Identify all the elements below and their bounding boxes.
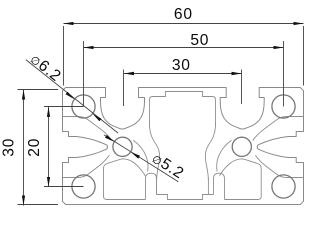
internal cavity bottom-left xyxy=(104,159,146,200)
svg-text:∅6.2: ∅6.2 xyxy=(27,51,64,86)
svg-text:30: 30 xyxy=(172,57,191,74)
internal cavity: central chamber right wall xyxy=(205,124,215,180)
leader d6.2 line xyxy=(26,60,118,133)
svg-text:50: 50 xyxy=(190,32,209,49)
web arm boss1 upper-right xyxy=(133,140,148,171)
internal cavity: central chamber ceiling xyxy=(150,92,216,127)
svg-text:20: 20 xyxy=(26,138,43,157)
web arm boss2 upper-left xyxy=(217,140,232,171)
corner block BR inner edge + web arm xyxy=(255,155,303,177)
aluminium profile outer outline with T-slots xyxy=(63,88,304,205)
corner hole 2 (d6.2) xyxy=(272,95,295,118)
svg-text:∅5.2: ∅5.2 xyxy=(149,150,187,183)
corner block BL inner edge + web arm xyxy=(63,155,110,177)
corner hole 1 (d6.2) xyxy=(72,95,95,118)
corner block TR inner edge + web arm xyxy=(253,117,304,141)
core hole 1 (d5.2) xyxy=(113,137,132,156)
dimension 60 line xyxy=(64,24,304,86)
internal rib left (rounded cap) xyxy=(146,173,157,199)
internal cavity: central chamber left wall xyxy=(150,124,160,180)
core hole 2 (d5.2) xyxy=(232,137,251,156)
dimension 20 line xyxy=(44,107,84,188)
corner hole 3 (d6.2) xyxy=(72,175,95,198)
leader d5.2 line xyxy=(104,135,178,182)
svg-text:60: 60 xyxy=(174,6,193,23)
dimension 30 top line xyxy=(124,70,242,107)
internal cavity bottom-right xyxy=(220,159,262,200)
internal rib right (rounded cap) xyxy=(214,173,225,199)
dimension 50 line xyxy=(84,41,284,107)
corner block TL inner edge + web arm xyxy=(63,117,112,141)
svg-text:30: 30 xyxy=(0,138,17,157)
corner hole 4 (d6.2) xyxy=(272,175,295,198)
dimension 30 left line xyxy=(18,90,59,206)
internal cavity: central floor with middle drop xyxy=(157,178,214,200)
